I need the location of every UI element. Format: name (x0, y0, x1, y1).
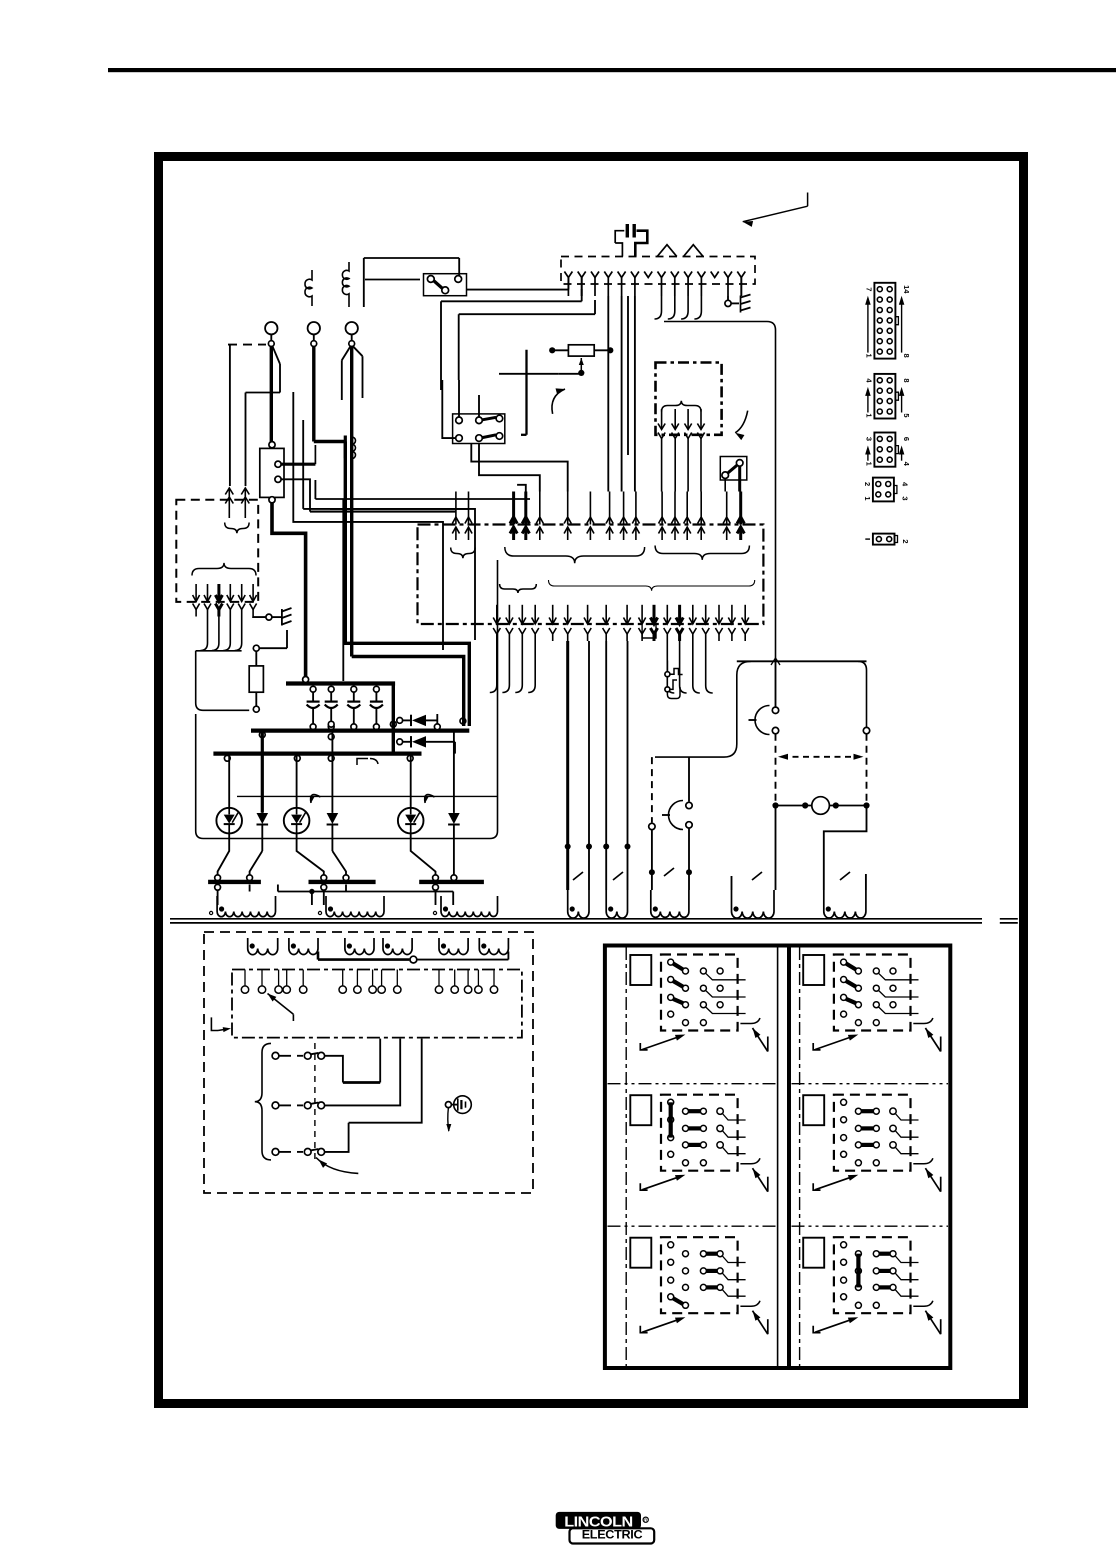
phase select brace (255, 1043, 271, 1160)
table cell P1 link bracket (740, 1018, 760, 1024)
terminal W branch wires (342, 346, 351, 360)
wire to inner board pin T2 (330, 508, 469, 510)
table cell P1 pointer arrow (640, 1043, 647, 1050)
connector plug J4 (4 pin) (873, 478, 894, 502)
heavy staircase wire A (352, 657, 464, 727)
table cell P1 contacts (668, 959, 674, 965)
svg-text:3: 3 (900, 496, 909, 500)
table cell P6 link bracket (913, 1301, 933, 1307)
firing board bottom pins (496, 605, 498, 624)
table cell P3 contacts (668, 1099, 674, 1105)
table cell P5 contacts (668, 1242, 674, 1248)
tap winding 5 (439, 938, 468, 955)
table cell P1 link arrow (753, 1028, 768, 1052)
phase U power wire (heavy) (270, 346, 273, 444)
swoosh arrow 1 (552, 389, 565, 414)
svg-text:1: 1 (863, 496, 872, 500)
output terminal circles (215, 875, 221, 881)
filter board output pins (195, 584, 197, 602)
terminal V lead node (313, 334, 315, 340)
snubber bus bar (top) (286, 681, 395, 685)
input terminal V (308, 322, 320, 334)
remote box pins (661, 409, 663, 430)
relay CR2 box (453, 414, 505, 444)
heavy output bar 2 (309, 880, 376, 884)
table cell P2 dashed box (834, 955, 911, 1031)
CR2 left feed wire (442, 380, 455, 438)
range switch stem wire (525, 350, 527, 435)
wire SW1 upper-left bend (365, 279, 420, 281)
line contactor CR1 box (260, 448, 284, 497)
switch S2 branch verticals (651, 757, 653, 822)
svg-text:1: 1 (864, 462, 873, 466)
table cell P2 link arrow (925, 1028, 940, 1052)
tap board dash-dot outline (232, 970, 522, 1038)
corner angle arrow (211, 1017, 218, 1030)
tap terminal circles (244, 970, 246, 986)
table cell P4 link arrow (925, 1168, 940, 1192)
table cell P2 link bracket (913, 1018, 933, 1024)
wire pin14 stub (740, 278, 742, 297)
row 3 wire (325, 1123, 349, 1152)
junction dots on secondary wires (565, 844, 571, 850)
svg-text:5: 5 (902, 413, 911, 417)
tap switch assembly dashed outline (204, 932, 533, 1193)
choke coil L2 (342, 262, 349, 307)
wire pin6 down to inner board (634, 296, 636, 492)
wiper wire (499, 373, 559, 375)
main transformer primary winding 2 (326, 896, 384, 917)
remote control box dash-dot outline (656, 363, 722, 435)
SCR enclosure loop (196, 560, 498, 839)
spark gap triangle 1 (657, 245, 677, 257)
svg-text:8: 8 (902, 378, 911, 382)
wire pin2 left (441, 300, 582, 302)
bus node circle (303, 677, 309, 683)
secondary wire 1 (heavy) (566, 641, 569, 890)
filter board pin A (228, 488, 230, 519)
aux winding 4 (824, 890, 866, 918)
SCR2 (296, 754, 298, 808)
table cell P2 pointer arrow (813, 1043, 820, 1050)
CR1 terminal side A (275, 461, 281, 467)
fan motor winding (732, 890, 775, 918)
left gate loop wire (196, 651, 250, 711)
row 2 wire (325, 1039, 401, 1106)
S2 lower wires (651, 830, 653, 890)
svg-text:2: 2 (863, 482, 872, 486)
svg-text:ELECTRIC: ELECTRIC (582, 1528, 643, 1542)
brace over filter outputs (192, 563, 256, 576)
secondary wire 2 (588, 641, 590, 890)
wire pin3 left (459, 313, 595, 315)
tap link node (410, 956, 417, 963)
table cell P4 link bracket (913, 1158, 933, 1164)
CR1 terminal bottom (269, 497, 275, 503)
table cell P5 link bracket (740, 1301, 760, 1307)
brace in remote box (662, 401, 701, 412)
brace right top (655, 546, 749, 560)
D2 cathode wire (332, 851, 346, 875)
table center divider (777, 946, 779, 1369)
tap winding 4 (383, 938, 412, 955)
CR1 bottom heavy wire to rectifier (272, 503, 306, 679)
rail peak mark (771, 658, 780, 665)
choke coil L1 (305, 270, 312, 306)
board pin row (14 plug pins) (564, 272, 572, 278)
aux winding 1 (568, 890, 589, 918)
capacitor C1 plug symbol on board top (615, 231, 624, 243)
rail left drop (655, 661, 751, 757)
bus corner glyphs (357, 759, 368, 766)
terminal U lead node (270, 334, 272, 340)
svg-text:1: 1 (864, 354, 873, 358)
board ground pin with terminal (727, 296, 729, 301)
fan motor M (812, 797, 830, 815)
chassis ground symbol (740, 296, 742, 313)
CR1 side A wire (heavy) (281, 463, 315, 466)
tap winding 6 (479, 938, 508, 955)
fan switch S1 (772, 707, 778, 713)
S1 lower dashed wire (775, 734, 777, 803)
tap winding 2 (289, 938, 318, 955)
CR1 side B wire (281, 479, 310, 511)
bottom pin hook leads right group (667, 641, 674, 693)
jumper select switch box (720, 457, 747, 481)
phase V power wire (heavy) (312, 346, 315, 441)
table cell P6 label box (803, 1238, 824, 1268)
lower bus bar (213, 751, 421, 755)
aux winding 2 (606, 890, 627, 918)
table row dividers (608, 1083, 776, 1085)
table cell P3 link bracket (740, 1158, 760, 1164)
connector plug J3 (6 pin) (874, 433, 895, 467)
board pins 8-11 hook leads (655, 296, 662, 319)
current control potentiometer R2 (568, 345, 594, 356)
bleeder resistor R1 (249, 666, 263, 692)
S1 upper wire (775, 661, 777, 707)
table cell P5 label box (630, 1238, 651, 1268)
table cell P3 pointer arrow (640, 1183, 647, 1190)
brace small lower (500, 584, 537, 593)
heavy output bar 1 (208, 880, 261, 884)
CR2 to board wires (471, 444, 567, 492)
control PC board dashed outline (561, 257, 755, 285)
SW1 top wire (364, 257, 459, 259)
current transformer on W phase (344, 436, 347, 459)
rail right drop (858, 661, 867, 727)
table cell P5 dashed box (661, 1237, 738, 1313)
chassis ground symbol (filter) (281, 609, 283, 626)
svg-text:2: 2 (901, 539, 910, 543)
R1 top terminal (253, 645, 259, 651)
input terminal W (346, 322, 358, 334)
lower bus node circles (224, 755, 230, 761)
main transformer primary winding 3 (441, 896, 498, 917)
input terminal U (265, 322, 277, 334)
travel dashed arrow (782, 756, 860, 758)
switch S2 (686, 802, 692, 808)
wire stub pin-mid (627, 296, 629, 455)
table cell P4 pointer arrow (813, 1183, 820, 1190)
table cell P1 label box (630, 955, 651, 985)
bar3 drop wires (435, 890, 437, 905)
table cell P2 label box (803, 955, 824, 985)
diode D1 (heavy feed) (261, 731, 264, 813)
snubber capacitors (310, 686, 316, 692)
SCR1 (228, 754, 230, 808)
svg-text:3: 3 (864, 437, 873, 441)
tap switch row 1 (272, 1052, 279, 1059)
gate curl SCR3 (425, 795, 435, 803)
connection diagram table frame (605, 946, 950, 1369)
dashed lead line left of terminal U (228, 344, 266, 346)
gate lead bus (237, 795, 498, 797)
table cell P5 pointer arrow (640, 1326, 647, 1333)
wire to filter board pin A (229, 345, 231, 486)
svg-text:4: 4 (902, 462, 911, 467)
filter board dashed outline (176, 500, 258, 602)
heavy staircase wire B (345, 442, 469, 727)
heavy output bar 3 (419, 880, 484, 884)
diode D3 (453, 731, 455, 813)
secondary wire 4 (627, 641, 629, 890)
wire hooks under filter (201, 617, 208, 651)
pot wiper arrow (580, 358, 582, 371)
primary tap interconnect (278, 891, 453, 893)
svg-text:4: 4 (864, 378, 873, 383)
table cell P1 dashed box (661, 955, 738, 1031)
tap switch row 3 (272, 1149, 279, 1156)
aux contact circle right (863, 727, 869, 733)
input switch SW1 box (424, 274, 467, 296)
diode D2 (331, 731, 333, 813)
brace small top (451, 548, 475, 559)
diode junction (436, 714, 438, 724)
tap link wire heavy (318, 958, 409, 961)
wire pin4 down to inner board (607, 296, 609, 492)
CR2 contacts (456, 417, 463, 424)
brace wide lower thin (549, 580, 755, 591)
jumper switch wires (724, 479, 726, 492)
svg-text:14: 14 (902, 285, 911, 294)
svg-text:1: 1 (864, 413, 873, 417)
table dash-dot verticals (625, 947, 627, 1366)
table cell P3 label box (630, 1095, 651, 1125)
R1 bottom terminal (253, 706, 259, 712)
filter ground wire with terminal (253, 616, 266, 619)
page top rule (108, 68, 1116, 72)
right dashed wire (866, 734, 868, 803)
table cell P6 contacts (841, 1242, 847, 1248)
svg-text:7: 7 (864, 287, 873, 291)
row 1 wire (325, 1056, 343, 1083)
svg-text:8: 8 (902, 354, 911, 358)
lead arrow annotation to board (743, 206, 808, 222)
CR1 terminal top (269, 442, 275, 448)
D1 cathode wire (250, 851, 263, 875)
ground drop arrow (448, 1108, 449, 1131)
bar lower terminals (215, 884, 221, 890)
wire hooks bus to right vertical (664, 322, 776, 662)
table cell P6 dashed box (834, 1237, 911, 1313)
continuation marks (1000, 918, 1018, 920)
selector dashed axis (314, 1043, 316, 1162)
thermostat / protection device (666, 661, 668, 672)
table cell P3 dashed box (661, 1095, 738, 1171)
long wire bundle corner 1 (315, 498, 530, 500)
bus link (heavy) (392, 684, 395, 754)
table cell P4 contacts (841, 1099, 847, 1105)
spark gap triangle 2 (684, 245, 704, 257)
earth ground terminal (445, 1102, 451, 1108)
bar2 drop wires (323, 890, 325, 905)
tap link wire thin (417, 959, 508, 961)
bottom pin hook leads (490, 641, 497, 693)
tap winding 1 (248, 938, 278, 955)
table cell P4 dashed box (834, 1095, 911, 1171)
table cell P6 link arrow (925, 1311, 940, 1335)
tap selector arrow (268, 994, 294, 1015)
wire to bus (thin) (342, 499, 344, 681)
firing board dash-dot outline (418, 525, 764, 625)
filter board pin B (244, 488, 246, 519)
CR2 coil wires top (458, 380, 460, 417)
connector plug J2 (8 pin) (874, 374, 895, 419)
brace under pins A-B (225, 523, 249, 534)
wire pin5 down to inner board (621, 296, 623, 492)
rotation arrow curve (316, 1158, 358, 1174)
freewheel diode D4 (397, 718, 403, 724)
Lincoln Electric logo (556, 1512, 655, 1544)
aux top rail (737, 660, 867, 662)
phase W power wire (heavy) (350, 346, 353, 656)
SCR1 cathode wire (218, 833, 230, 875)
SCR2 cathode wire (297, 833, 324, 875)
mid bus node circles (328, 721, 334, 727)
freewheel diode D5 (397, 739, 403, 745)
brace wide mid (505, 547, 645, 563)
table cell P2 contacts (841, 959, 847, 965)
main transformer primary winding 1 (217, 896, 275, 917)
tap switch row 2 (272, 1102, 279, 1109)
table cell P6 pointer arrow (813, 1326, 820, 1333)
firing board top pins (455, 492, 457, 525)
swoosh arrow 2 (735, 411, 748, 433)
table cell P5 link arrow (753, 1311, 768, 1335)
board edge notch (642, 624, 656, 638)
table cell P4 label box (803, 1095, 824, 1125)
mid bus bar (251, 728, 469, 732)
connector plug J1 (14 pin) (874, 283, 895, 359)
bar1 drop wires (217, 890, 219, 905)
wire pin1 to input switch (467, 289, 569, 291)
transformer core double line (170, 918, 982, 920)
svg-text:4: 4 (900, 482, 909, 487)
aux winding 3 (651, 890, 689, 917)
long wire bundle corner 2 (303, 509, 475, 640)
terminal U branch wire (273, 346, 281, 364)
terminal W lead node (351, 334, 353, 340)
table cell P3 link arrow (753, 1168, 768, 1192)
gate curl SCR2 (311, 795, 321, 803)
SCR3 (410, 754, 412, 808)
CR1 terminal side B (275, 476, 281, 482)
switch blade marks (573, 872, 583, 880)
connector plug J5 (2 pin) (873, 534, 895, 545)
long wire bundle corner 3 (293, 392, 443, 650)
motor branch wires (775, 806, 777, 891)
SW1 contacts (427, 276, 434, 283)
tap winding 3 (345, 938, 374, 955)
main schematic border frame (159, 157, 1024, 1404)
secondary wire 3 (605, 641, 607, 890)
SCR3 cathode wire (411, 833, 436, 875)
svg-text:6: 6 (902, 437, 911, 441)
